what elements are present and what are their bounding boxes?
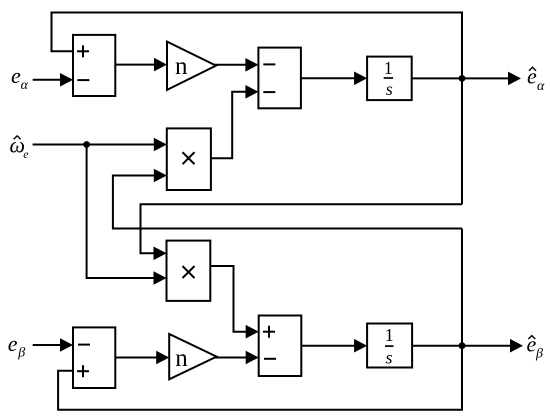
svg-text:β: β <box>17 345 25 360</box>
svg-text:1: 1 <box>384 58 393 78</box>
svg-text:α: α <box>21 78 29 93</box>
svg-text:β: β <box>535 347 543 362</box>
svg-text:α: α <box>537 79 545 94</box>
svg-text:s: s <box>386 79 393 99</box>
svg-text:1: 1 <box>385 325 394 345</box>
svg-text:e: e <box>11 63 21 88</box>
svg-text:e: e <box>8 331 18 356</box>
svg-text:s: s <box>385 347 392 367</box>
svg-text:n: n <box>175 53 188 80</box>
svg-text:n: n <box>175 345 188 372</box>
svg-text:e: e <box>23 147 29 161</box>
